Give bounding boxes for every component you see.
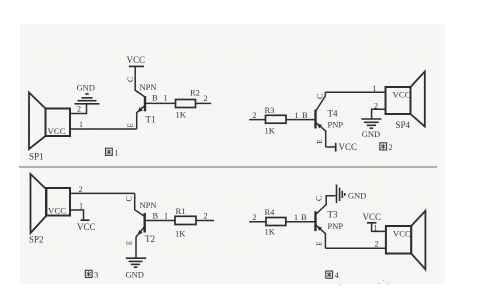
svg-text:R3: R3 (265, 105, 275, 115)
svg-text:B: B (301, 212, 307, 222)
wire input to R4 (249, 221, 266, 223)
label 图3 (85, 270, 98, 279)
svg-text:GND: GND (126, 270, 144, 280)
wire VCC to SP3 pin1 (372, 223, 386, 232)
ground GND (circuit 3) (126, 258, 146, 267)
resistor R2 (176, 100, 212, 108)
ground GND (circuit 2) (361, 119, 381, 128)
wire SP1 pin2 to ground (70, 105, 87, 114)
svg-text:NPN: NPN (140, 82, 157, 92)
svg-text:2: 2 (79, 185, 83, 194)
wire T3 emitter to speaker pin2 (325, 247, 386, 249)
svg-text:VCC: VCC (393, 90, 411, 100)
speaker SP2 (31, 174, 71, 233)
svg-text:T1: T1 (146, 115, 156, 125)
speaker SP1 (29, 93, 70, 150)
svg-text:1K: 1K (176, 110, 187, 120)
svg-text:1: 1 (374, 224, 378, 233)
resistor R3 (266, 115, 316, 123)
svg-text:T2: T2 (145, 234, 155, 244)
svg-text:2: 2 (253, 213, 257, 222)
label 图1 (106, 148, 119, 157)
svg-text:2: 2 (374, 102, 378, 111)
wire SP4 pin2 to ground (372, 109, 386, 118)
svg-text:VCC: VCC (127, 55, 146, 65)
svg-text:VCC: VCC (363, 212, 382, 222)
power VCC (T1 collector) (129, 65, 144, 67)
svg-text:E: E (316, 242, 324, 246)
label 图4 (326, 271, 339, 280)
svg-text:1: 1 (294, 213, 298, 222)
divider line (19, 166, 437, 168)
svg-text:2: 2 (389, 143, 393, 152)
wire SP2 pin1 to VCC (70, 210, 84, 220)
svg-text:1: 1 (164, 94, 168, 103)
svg-text:GND: GND (77, 82, 95, 92)
svg-text:C: C (125, 76, 135, 82)
svg-text:VCC: VCC (77, 222, 96, 232)
svg-text:1: 1 (79, 202, 83, 211)
svg-text:T4: T4 (328, 109, 338, 119)
svg-text:C: C (314, 195, 324, 201)
svg-text:GND: GND (362, 129, 380, 139)
svg-text:1: 1 (79, 120, 83, 129)
wire T4 emitter to VCC (326, 146, 336, 148)
svg-text:B: B (302, 110, 308, 120)
svg-text:SP4: SP4 (396, 120, 411, 130)
svg-text:1K: 1K (265, 126, 276, 136)
svg-text:GND: GND (348, 191, 366, 201)
power VCC (SP2 pin1) (81, 219, 90, 221)
svg-text:T3: T3 (328, 210, 338, 220)
svg-text:PNP: PNP (328, 221, 344, 231)
svg-text:1: 1 (164, 212, 168, 221)
svg-text:NPN: NPN (140, 200, 157, 210)
svg-text:VCC: VCC (393, 228, 411, 238)
svg-text:2: 2 (204, 94, 208, 103)
svg-text:SP1: SP1 (29, 152, 44, 162)
label 图2 (380, 143, 393, 152)
svg-text:1K: 1K (175, 229, 186, 239)
svg-text:1: 1 (295, 111, 299, 120)
svg-text:E: E (316, 140, 324, 144)
ground GND rotated (circuit 4) (337, 185, 345, 204)
transistor T4 (316, 92, 326, 147)
svg-text:2: 2 (77, 105, 81, 114)
resistor R1 (175, 216, 214, 224)
svg-text:E: E (125, 240, 134, 245)
svg-text:R1: R1 (176, 206, 186, 216)
svg-text:1: 1 (373, 84, 377, 93)
svg-text:PNP: PNP (328, 120, 344, 130)
svg-text:3: 3 (94, 271, 98, 280)
transistor T2 (135, 193, 175, 257)
wire input to R3 (249, 119, 265, 121)
svg-text:2: 2 (375, 240, 379, 249)
speaker SP3 (386, 211, 426, 269)
svg-text:VCC: VCC (48, 126, 66, 136)
svg-text:2: 2 (204, 212, 208, 221)
svg-text:1K: 1K (265, 227, 276, 237)
resistor R4 (266, 218, 316, 226)
svg-text:R4: R4 (265, 207, 276, 217)
svg-text:E: E (126, 123, 135, 128)
svg-text:2: 2 (253, 111, 257, 120)
svg-text:B: B (153, 211, 159, 221)
svg-text:B: B (152, 93, 158, 103)
ground GND (inverted earth, circuit 1) (75, 94, 100, 104)
svg-text:4: 4 (335, 271, 339, 280)
wire SP1 pin1 to T1 emitter (70, 128, 137, 130)
svg-text:SP2: SP2 (29, 235, 44, 245)
svg-text:VCC: VCC (339, 142, 358, 152)
power VCC (T4 emitter) (335, 143, 337, 152)
svg-text:VCC: VCC (48, 206, 66, 216)
wire SP2 pin2 to T2 collector (70, 192, 135, 194)
wire T4 collector to SP4 pin1 (325, 91, 385, 93)
svg-text:C: C (315, 93, 325, 99)
transistor T1 (135, 66, 175, 129)
speaker SP4 (386, 72, 425, 127)
svg-text:R2: R2 (190, 88, 200, 98)
transistor T3 (316, 196, 336, 248)
svg-text:1: 1 (115, 148, 119, 157)
svg-text:C: C (124, 196, 134, 202)
